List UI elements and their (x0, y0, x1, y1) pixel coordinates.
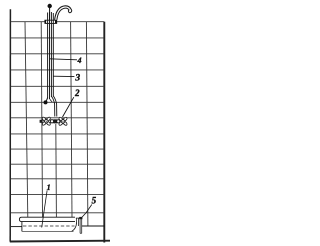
apron line right of drain (82, 225, 104, 227)
faucet wall stub left (40, 120, 43, 123)
tub bottom front line (22, 230, 74, 232)
shower head bell (68, 9, 71, 13)
drain top cap (79, 217, 82, 219)
wire left wall border (9, 9, 11, 241)
faucet body bar (42, 120, 62, 123)
elbow pipe to faucet (52, 97, 55, 117)
riser pipe bundle (48, 12, 54, 99)
svg-text:5: 5 (92, 196, 97, 206)
tub left face (21, 222, 23, 232)
leader for 1 (42, 191, 47, 228)
leader for 3 (53, 75, 74, 77)
wire right wall border (103, 22, 105, 243)
shower hose curved arm (55, 6, 71, 20)
wire tile horizontal lines (11, 22, 105, 213)
floor ledge line left of tub (11, 226, 22, 228)
leader for 4 (50, 59, 78, 60)
tub waterline dashed (23, 225, 75, 227)
leader for 2 (63, 97, 74, 117)
svg-text:4: 4 (77, 56, 82, 65)
faucet valve right handle (58, 117, 67, 126)
leader for 5 (82, 205, 92, 218)
svg-text:3: 3 (74, 74, 80, 84)
drain standpipe (76, 218, 82, 234)
faucet valve left handle (42, 116, 51, 125)
stem of ball (49, 8, 51, 21)
faucet center block (54, 119, 57, 123)
svg-text:2: 2 (74, 88, 80, 98)
wire bottom border (10, 240, 110, 243)
s-trap hook at drain bottom (72, 223, 77, 232)
wire tile vertical lines (25, 22, 88, 226)
ball at riser bottom (44, 100, 48, 104)
faucet union ring right (57, 120, 60, 123)
faucet union ring left (50, 120, 53, 123)
connector riser to bottom ball (46, 98, 48, 101)
ball finial on riser top (48, 4, 52, 8)
pipe clamp at wall top (45, 20, 57, 23)
bathtub rim (19, 217, 75, 221)
